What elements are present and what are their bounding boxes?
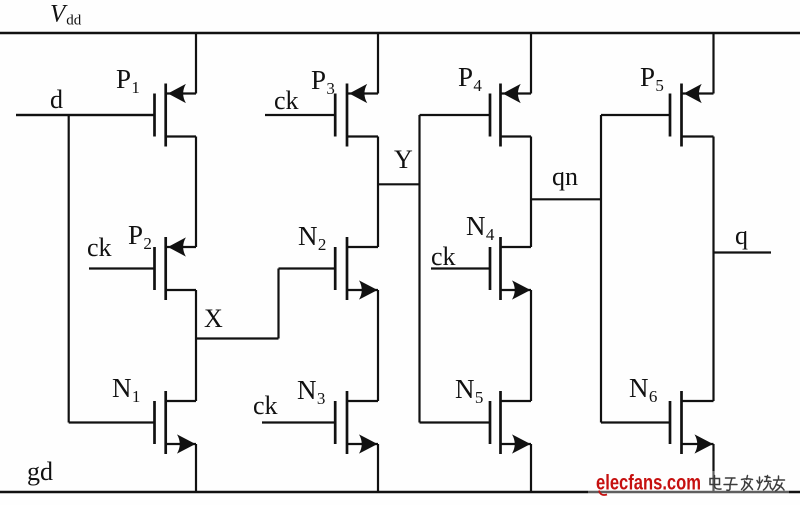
svg-text:ck: ck [87,233,112,262]
watermark logo swash under e [599,491,607,496]
transistor N4 (NMOS) [431,237,531,300]
wire Vdd to P4 source [530,33,532,94]
wire N1 source to gd [195,444,197,492]
watermark background box [588,471,789,505]
wire P4 gate to N5 gate vertical [418,115,420,423]
transistor N2 (NMOS) [279,237,379,300]
transistor P4 (PMOS) [420,84,532,147]
wire N3 source to gd [377,444,379,492]
transistor P2 (PMOS) [89,237,196,300]
node X horizontal wire [196,337,279,339]
svg-text:qn: qn [552,162,578,191]
svg-text:Y: Y [394,145,413,174]
svg-text:X: X [204,304,223,333]
svg-text:d: d [50,85,63,114]
transistor P5 (PMOS) [601,84,714,147]
watermark Chinese text 电子发烧友 (faux strokes) [710,476,785,492]
wire Vdd to P5 source [712,33,714,94]
wire P5 gate to N6 gate vertical [600,115,602,423]
wire P4 drain to N4 drain (node qn vertical) [530,137,532,248]
wire node X up to N2 gate [277,269,279,339]
wire Vdd to P1 source [195,33,197,94]
transistor N1 (NMOS) [69,391,196,454]
svg-text:ck: ck [253,391,278,420]
svg-text:ck: ck [431,242,456,271]
wire N6 source to gd [712,444,714,492]
svg-text:q: q [735,221,748,250]
wire P5 drain to N6 drain (node q vertical) [712,137,714,402]
transistor N3 (NMOS) [262,391,378,454]
node q output wire [714,251,772,253]
svg-text:ck: ck [274,86,299,115]
transistor P3 (PMOS) [265,84,378,147]
transistor N5 (NMOS) [420,391,532,454]
Vdd power rail [0,32,800,35]
wire Vdd to P3 source [377,33,379,94]
wire input d horizontal [16,114,155,116]
svg-text:elecfans.com: elecfans.com [596,471,701,495]
wire P1 drain to P2 source [195,137,197,248]
svg-text:gd: gd [27,457,53,486]
node Y horizontal wire [378,183,420,185]
wire d branch down to N1 gate [68,115,70,423]
wire N5 source to gd [530,444,532,492]
wire N4 source to N5 drain [530,290,532,401]
transistor N6 (NMOS) [601,391,714,454]
wire P2 drain to N1 drain (node X vertical) [195,290,197,401]
gd ground rail [0,491,800,494]
wire N2 source to N3 drain [377,290,379,401]
transistor P1 (PMOS) [16,84,196,147]
wire P3 drain to N2 drain (node Y vertical) [377,137,379,248]
node qn horizontal wire [531,198,601,200]
